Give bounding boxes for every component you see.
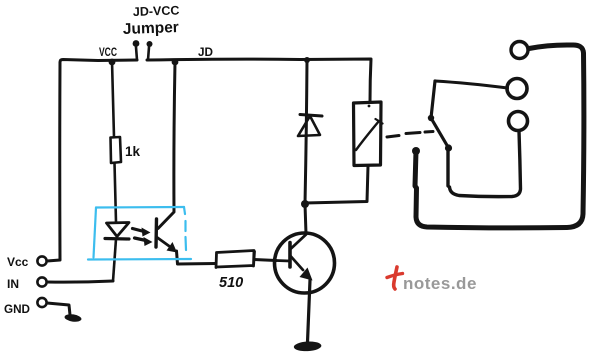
wire 510 to transistor base xyxy=(254,260,276,261)
optocoupler U1 light arrow 1 xyxy=(133,229,145,232)
optocoupler U1 LED triangle xyxy=(107,223,130,237)
transistor Q1 base bar xyxy=(288,243,292,268)
dashed mechanical link xyxy=(387,132,433,138)
wire emitter to 510 resistor xyxy=(177,251,217,264)
svg-text:VCC: VCC xyxy=(99,47,117,59)
optocoupler U1 highlight box xyxy=(88,207,191,260)
transistor Q1 circle xyxy=(275,233,335,293)
node armature bend dot xyxy=(428,115,434,121)
resistor R1 1k body xyxy=(111,137,122,163)
resistor R2 510 body xyxy=(216,251,255,268)
terminal circle middle (NC) xyxy=(507,79,527,99)
watermark tnotes.de red t xyxy=(394,267,397,289)
wire VCC rail (left terminal up to top-left rail) xyxy=(47,60,137,262)
diode D1 triangle xyxy=(298,116,320,136)
svg-text:notes.de: notes.de xyxy=(403,274,477,293)
diode D1 cathode bar xyxy=(300,115,322,117)
wire JD rail (jumper right pin to relay top) xyxy=(147,59,371,102)
relay K1 actuator diagonal xyxy=(356,121,379,150)
wire common loop to top terminal xyxy=(415,45,584,228)
optocoupler U1 LED cathode bar xyxy=(105,237,129,241)
wire collector up through diode branch xyxy=(305,60,307,234)
transistor Q1 collector stroke xyxy=(291,235,307,250)
svg-text:510: 510 xyxy=(219,275,243,291)
jumper JP1 right pin xyxy=(148,47,149,60)
jumper JP1 left pin ball xyxy=(133,40,140,47)
wire 1k branch upper xyxy=(112,61,114,137)
wire GND stub xyxy=(47,303,70,315)
svg-text:Jumper: Jumper xyxy=(123,19,180,38)
wire 1k branch lower (to LED anode) xyxy=(115,163,117,222)
wire NO contact to bottom terminal xyxy=(448,131,521,197)
transistor Q1 base lead xyxy=(276,259,290,262)
optocoupler U1 light arrow 2 xyxy=(135,238,147,241)
node VCC junction dot xyxy=(109,59,116,66)
svg-text:1k: 1k xyxy=(125,144,141,159)
node common pivot dot xyxy=(412,147,420,155)
node diode top junction dot xyxy=(304,57,310,63)
optocoupler U1 phototransistor emitter with arrow xyxy=(157,237,170,246)
switch armature (pole to NC corner) xyxy=(431,81,448,147)
transistor Q1 emitter stroke with arrow xyxy=(291,256,304,270)
svg-text:Vcc: Vcc xyxy=(7,255,29,269)
wire IN to optocoupler xyxy=(47,281,113,282)
jumper JP1 right pin ball xyxy=(147,41,153,47)
terminal Vcc circle xyxy=(37,256,46,265)
wire emitter to ground xyxy=(308,280,311,342)
svg-text:JD-VCC: JD-VCC xyxy=(133,3,180,19)
wire LED cathode down to IN wire xyxy=(113,239,116,281)
relay K1 coil body xyxy=(354,102,382,166)
ground symbol at GND terminal xyxy=(64,313,82,322)
svg-text:JD: JD xyxy=(198,45,213,59)
node collector/diode junction dot xyxy=(301,200,309,208)
svg-text:IN: IN xyxy=(7,277,19,291)
node NO contact dot xyxy=(445,144,452,151)
terminal IN circle xyxy=(37,277,46,286)
relay K1 top inner dot xyxy=(368,105,371,108)
wire NC contact to middle terminal xyxy=(435,81,508,88)
svg-text:GND: GND xyxy=(4,302,30,316)
node JD junction dot xyxy=(172,59,179,66)
terminal GND circle xyxy=(37,298,46,307)
jumper JP1 left pin xyxy=(136,47,137,60)
wire junction to relay bottom pin xyxy=(305,166,368,203)
optocoupler U1 phototransistor bar xyxy=(154,219,158,247)
terminal circle top (common) xyxy=(511,42,528,59)
terminal circle bottom (NO) xyxy=(509,112,528,131)
ground symbol under transistor xyxy=(294,341,322,352)
wire JD branch down (phototransistor collector) xyxy=(158,62,175,229)
relay K1 actuator tick xyxy=(376,119,383,124)
